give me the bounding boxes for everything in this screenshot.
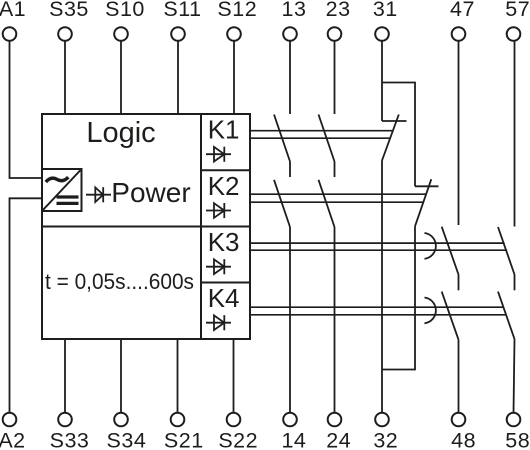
- svg-text:S10: S10: [105, 0, 145, 21]
- svg-text:K4: K4: [208, 283, 240, 313]
- svg-text:S21: S21: [164, 429, 204, 450]
- svg-text:S22: S22: [218, 429, 258, 450]
- svg-text:Logic: Logic: [86, 117, 155, 149]
- svg-text:S12: S12: [217, 0, 257, 21]
- svg-text:S33: S33: [50, 429, 90, 450]
- svg-text:24: 24: [326, 429, 351, 450]
- svg-text:31: 31: [373, 0, 398, 21]
- svg-text:K2: K2: [208, 171, 240, 201]
- svg-text:13: 13: [282, 0, 307, 21]
- svg-text:K3: K3: [208, 227, 240, 257]
- svg-text:32: 32: [373, 429, 398, 450]
- svg-text:58: 58: [505, 429, 530, 450]
- svg-text:57: 57: [505, 0, 530, 21]
- svg-text:48: 48: [451, 429, 476, 450]
- svg-text:Power: Power: [111, 177, 190, 208]
- svg-text:A2: A2: [0, 429, 26, 450]
- svg-text:23: 23: [326, 0, 351, 21]
- svg-text:S34: S34: [107, 429, 147, 450]
- svg-text:47: 47: [450, 0, 475, 21]
- svg-text:K1: K1: [208, 115, 240, 145]
- svg-text:14: 14: [281, 429, 306, 450]
- svg-text:S35: S35: [49, 0, 89, 21]
- svg-text:A1: A1: [0, 0, 26, 21]
- svg-text:S11: S11: [163, 0, 201, 21]
- svg-text:t = 0,05s....600s: t = 0,05s....600s: [45, 269, 194, 294]
